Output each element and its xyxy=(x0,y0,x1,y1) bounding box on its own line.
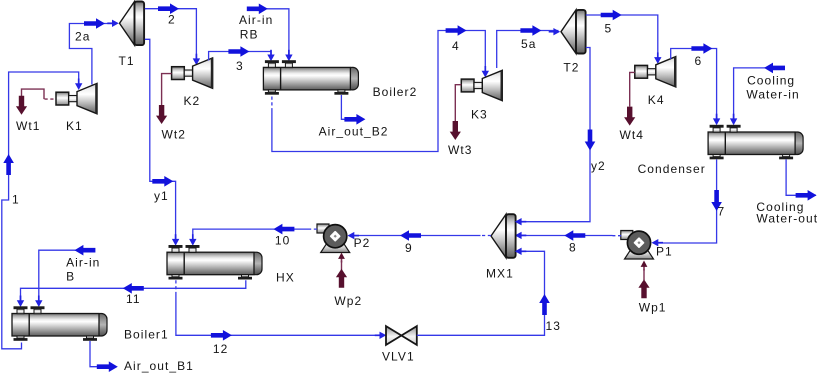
svg-text:Air_out_B1: Air_out_B1 xyxy=(124,359,194,373)
wire stream 1 xyxy=(2,72,83,349)
boiler Boiler1 xyxy=(12,306,107,341)
svg-text:Wt4: Wt4 xyxy=(620,128,644,142)
node label 5a xyxy=(521,37,536,51)
svg-text:K3: K3 xyxy=(471,107,488,121)
compressor K3 xyxy=(461,70,502,100)
node label 2 xyxy=(168,12,176,26)
work stream Wt2 xyxy=(156,74,186,142)
node label 6 xyxy=(695,54,703,68)
node label 5 xyxy=(605,21,613,35)
svg-text:8: 8 xyxy=(569,240,577,254)
svg-text:9: 9 xyxy=(405,241,413,255)
svg-text:HX: HX xyxy=(276,270,295,284)
svg-text:Water-in: Water-in xyxy=(746,87,799,101)
svg-text:Air_out_B2: Air_out_B2 xyxy=(319,124,389,138)
wire stream 11 xyxy=(17,280,246,307)
compressor K2 xyxy=(172,58,213,88)
svg-text:Condenser: Condenser xyxy=(638,162,706,176)
pump P2 xyxy=(317,224,350,253)
node label 2a xyxy=(75,29,90,43)
work stream Wp2 xyxy=(334,253,362,308)
wire stream 5 xyxy=(586,10,662,64)
wire stream 8 xyxy=(515,230,621,241)
wire stream 6 xyxy=(671,43,721,125)
svg-text:T2: T2 xyxy=(563,61,579,75)
wire stream 2a xyxy=(69,18,118,84)
valve VLV1 xyxy=(386,326,417,345)
work stream Wt4 xyxy=(620,72,644,141)
svg-text:T1: T1 xyxy=(119,54,135,68)
svg-text:2: 2 xyxy=(168,12,176,26)
svg-text:Cooling: Cooling xyxy=(747,73,795,87)
heat exchanger HX xyxy=(167,245,262,280)
svg-text:Air-in: Air-in xyxy=(239,13,273,27)
svg-text:y1: y1 xyxy=(154,189,169,203)
svg-text:5: 5 xyxy=(605,21,613,35)
node label 9 xyxy=(405,241,413,255)
mixer MX1 xyxy=(491,214,516,258)
svg-text:P1: P1 xyxy=(656,244,673,258)
work stream Wt1 xyxy=(16,89,56,133)
svg-text:K2: K2 xyxy=(184,94,201,108)
wire stream 10 xyxy=(189,224,317,246)
condenser Condenser xyxy=(708,125,803,160)
pump P1 xyxy=(621,231,654,260)
node label y2 xyxy=(591,159,606,173)
wire stream y2 xyxy=(515,48,596,226)
wire Cooling Water-out xyxy=(756,160,818,226)
node label 8 xyxy=(569,240,577,254)
node label 1 xyxy=(12,192,20,206)
wire stream 7 xyxy=(652,160,722,247)
wire stream 9 xyxy=(348,230,492,241)
svg-text:Wt1: Wt1 xyxy=(16,119,40,133)
work stream Wt3 xyxy=(448,85,472,157)
compressor K4 xyxy=(635,57,676,87)
wire Air-in B xyxy=(35,245,100,307)
svg-text:6: 6 xyxy=(695,54,703,68)
wire Cooling Water-in xyxy=(730,63,800,126)
wire stream y1 xyxy=(145,39,180,245)
svg-text:Boiler2: Boiler2 xyxy=(373,85,418,99)
node label 13 xyxy=(546,319,561,333)
svg-text:Wt3: Wt3 xyxy=(448,143,472,157)
svg-text:Wp2: Wp2 xyxy=(334,294,362,308)
svg-text:3: 3 xyxy=(236,59,244,73)
wire stream 13 xyxy=(417,248,550,336)
wire Air_out_B2 xyxy=(319,95,389,138)
turbine T2 xyxy=(561,10,586,54)
node label y1 xyxy=(154,189,169,203)
node label 11 xyxy=(126,292,141,306)
svg-text:Wp1: Wp1 xyxy=(639,301,667,315)
node label 7 xyxy=(718,204,726,218)
turbine T1 xyxy=(120,2,145,46)
svg-text:11: 11 xyxy=(126,292,141,306)
svg-text:y2: y2 xyxy=(591,159,606,173)
work stream Wp1 xyxy=(638,261,666,315)
svg-text:VLV1: VLV1 xyxy=(382,350,415,364)
svg-text:12: 12 xyxy=(213,342,228,356)
wire stream 2 xyxy=(145,3,200,65)
wire Air-in RB xyxy=(239,4,293,62)
svg-text:5a: 5a xyxy=(521,37,536,51)
boiler Boiler2 xyxy=(263,60,358,95)
svg-text:Water-out: Water-out xyxy=(756,211,818,225)
svg-text:K1: K1 xyxy=(66,119,83,133)
node label 4 xyxy=(452,39,460,53)
svg-text:4: 4 xyxy=(452,39,460,53)
svg-text:10: 10 xyxy=(275,233,290,247)
svg-text:Wt2: Wt2 xyxy=(162,127,186,141)
svg-text:RB: RB xyxy=(240,27,259,41)
svg-text:Air-in: Air-in xyxy=(66,255,100,269)
svg-text:2a: 2a xyxy=(75,29,90,43)
wire stream 4 xyxy=(272,25,489,151)
node label 12 xyxy=(213,342,228,356)
svg-text:Boiler1: Boiler1 xyxy=(124,327,169,341)
compressor K1 xyxy=(56,83,97,113)
wire stream 5a xyxy=(497,25,561,68)
wire stream 3 xyxy=(209,46,275,61)
node label 3 xyxy=(236,59,244,73)
svg-text:13: 13 xyxy=(546,319,561,333)
node label 10 xyxy=(275,233,290,247)
wire Air_out_B1 xyxy=(90,341,194,373)
svg-text:MX1: MX1 xyxy=(486,266,514,280)
svg-text:B: B xyxy=(66,270,75,284)
svg-text:P2: P2 xyxy=(354,236,371,250)
svg-text:7: 7 xyxy=(718,204,726,218)
svg-text:1: 1 xyxy=(12,192,20,206)
svg-text:K4: K4 xyxy=(648,93,665,107)
wire stream 12 xyxy=(176,280,386,340)
